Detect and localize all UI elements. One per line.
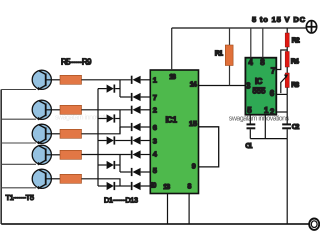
diode D-right pin4 — [131, 150, 153, 158]
svg-text:6: 6 — [153, 123, 157, 132]
wire base row T4 to diode — [82, 154, 131, 156]
diode D-right pin10 — [131, 182, 153, 190]
wire 555 pin8 to rail — [262, 28, 264, 58]
diode D-right pin3 — [131, 136, 153, 144]
svg-text:5 to 15 V DC: 5 to 15 V DC — [252, 15, 306, 24]
wire emitter T3 — [1, 142, 36, 144]
preset R3 — [285, 73, 289, 88]
capacitor C1 — [247, 123, 256, 125]
resistor R7 — [60, 129, 82, 138]
wire emitter T5 — [1, 187, 36, 189]
svg-text:8: 8 — [260, 58, 265, 67]
svg-text:D1------D13: D1------D13 — [104, 195, 138, 204]
wire pin6 to pin2 column — [286, 94, 288, 123]
svg-text:R3: R3 — [291, 80, 299, 89]
wire R4-R3 — [286, 67, 288, 74]
svg-text:7: 7 — [271, 67, 276, 76]
wire connector S3 — [119, 155, 121, 173]
wire C1 bottom — [249, 129, 251, 138]
wire connector S2 — [119, 110, 121, 134]
diode D-right pin1 — [131, 76, 153, 84]
IC 555 body — [245, 58, 276, 115]
transistor T5 — [32, 169, 60, 189]
svg-text:R5------R9: R5------R9 — [61, 57, 92, 66]
wire R3 bottom — [286, 88, 288, 95]
diode D-left-1 — [98, 85, 120, 93]
negative terminal — [309, 219, 319, 230]
wire pin15 reset loop — [199, 127, 219, 167]
diode D-right pin7 — [131, 93, 153, 101]
svg-text:5: 5 — [247, 106, 252, 115]
R3 wiper arrow — [281, 76, 287, 93]
svg-text:C2: C2 — [292, 122, 300, 131]
wire 555 pin6 row — [276, 93, 287, 95]
wire base row T3 — [82, 127, 121, 134]
diode D-right pin6 — [131, 123, 153, 131]
svg-text:R1: R1 — [215, 48, 223, 57]
IC U1 (IC 1 counter) body — [150, 70, 198, 194]
svg-text:7: 7 — [153, 93, 157, 102]
wire base row T5 — [82, 179, 121, 186]
wire ground row — [250, 138, 287, 140]
svg-text:C1: C1 — [245, 141, 252, 150]
diode D-left-3 — [98, 136, 131, 144]
wire pin5 row — [120, 171, 131, 173]
svg-text:4: 4 — [248, 58, 253, 67]
svg-text:9: 9 — [192, 161, 196, 170]
svg-text:10: 10 — [150, 181, 157, 190]
svg-text:1: 1 — [264, 106, 269, 115]
wire vertical bus A — [97, 89, 99, 186]
wire ground row to rail — [286, 139, 288, 224]
transistor T3 — [32, 124, 60, 144]
wire 555 pin4 to rail — [250, 28, 252, 58]
resistor R2 — [286, 28, 288, 34]
svg-text:13: 13 — [163, 184, 170, 191]
svg-text:swagatam innovations: swagatam innovations — [55, 115, 116, 122]
wire 555 pin7 to R2/R4 junction — [276, 50, 287, 70]
svg-text:3: 3 — [246, 82, 251, 91]
wire connector S1 — [119, 80, 121, 97]
svg-text:6: 6 — [270, 89, 275, 98]
svg-text:5: 5 — [153, 166, 157, 175]
wire top rail — [172, 27, 307, 29]
wire pin7 row — [120, 96, 131, 98]
resistor R6 — [60, 105, 82, 114]
resistor R9 — [60, 174, 82, 183]
wire pin16 to top rail — [171, 28, 173, 70]
svg-text:1: 1 — [153, 76, 157, 85]
diode D-right pin2 — [131, 106, 153, 114]
svg-text:IC 1: IC 1 — [166, 116, 178, 125]
transistor T1 — [32, 70, 60, 90]
wire left emitter bus — [0, 90, 2, 225]
diode D-right pin5 — [131, 168, 153, 176]
svg-text:555: 555 — [253, 86, 267, 95]
wire pin6 row — [120, 126, 131, 128]
svg-text:swagatam innovations: swagatam innovations — [229, 116, 290, 123]
svg-text:8: 8 — [188, 183, 192, 190]
transistor T4 — [32, 145, 60, 165]
wire pin13 to rail — [167, 194, 169, 225]
resistor R8 — [60, 150, 82, 159]
wire pin8 to rail — [188, 194, 190, 225]
svg-text:16: 16 — [169, 74, 176, 81]
positive terminal — [306, 21, 316, 33]
capacitor C2 — [282, 123, 291, 125]
wire emitter T1 — [1, 89, 36, 91]
svg-text:R2: R2 — [292, 35, 300, 44]
wire 555 pin2 row — [276, 111, 287, 113]
wire 555 pin1 down — [264, 115, 266, 139]
wire C2 bottom — [286, 129, 288, 138]
svg-text:IC: IC — [255, 77, 263, 86]
svg-text:T1------T5: T1------T5 — [6, 193, 35, 202]
svg-text:2: 2 — [153, 106, 157, 115]
wire 555 pin5 down — [249, 115, 251, 124]
wire R2-R4 — [286, 47, 288, 52]
diode D-left-2 — [98, 114, 120, 122]
diode D-left-5 — [98, 182, 131, 190]
wire base row T1 to diode — [82, 79, 131, 81]
svg-text:14: 14 — [190, 79, 197, 88]
svg-text:15: 15 — [189, 119, 197, 128]
resistor R5 — [60, 75, 82, 84]
transistor T2 — [32, 100, 60, 120]
wire emitter T4 — [1, 163, 36, 165]
wire emitter T2 — [1, 118, 36, 120]
svg-text:R4: R4 — [291, 56, 299, 65]
wire pin14 to 555 pin3 — [199, 85, 246, 87]
svg-text:3: 3 — [153, 136, 157, 145]
resistor R4 — [285, 52, 289, 68]
wire bottom negative rail — [1, 223, 309, 225]
wire base row T2 to diode — [82, 109, 131, 111]
resistor R1 — [229, 28, 231, 86]
diode D-left-4 — [98, 161, 120, 169]
